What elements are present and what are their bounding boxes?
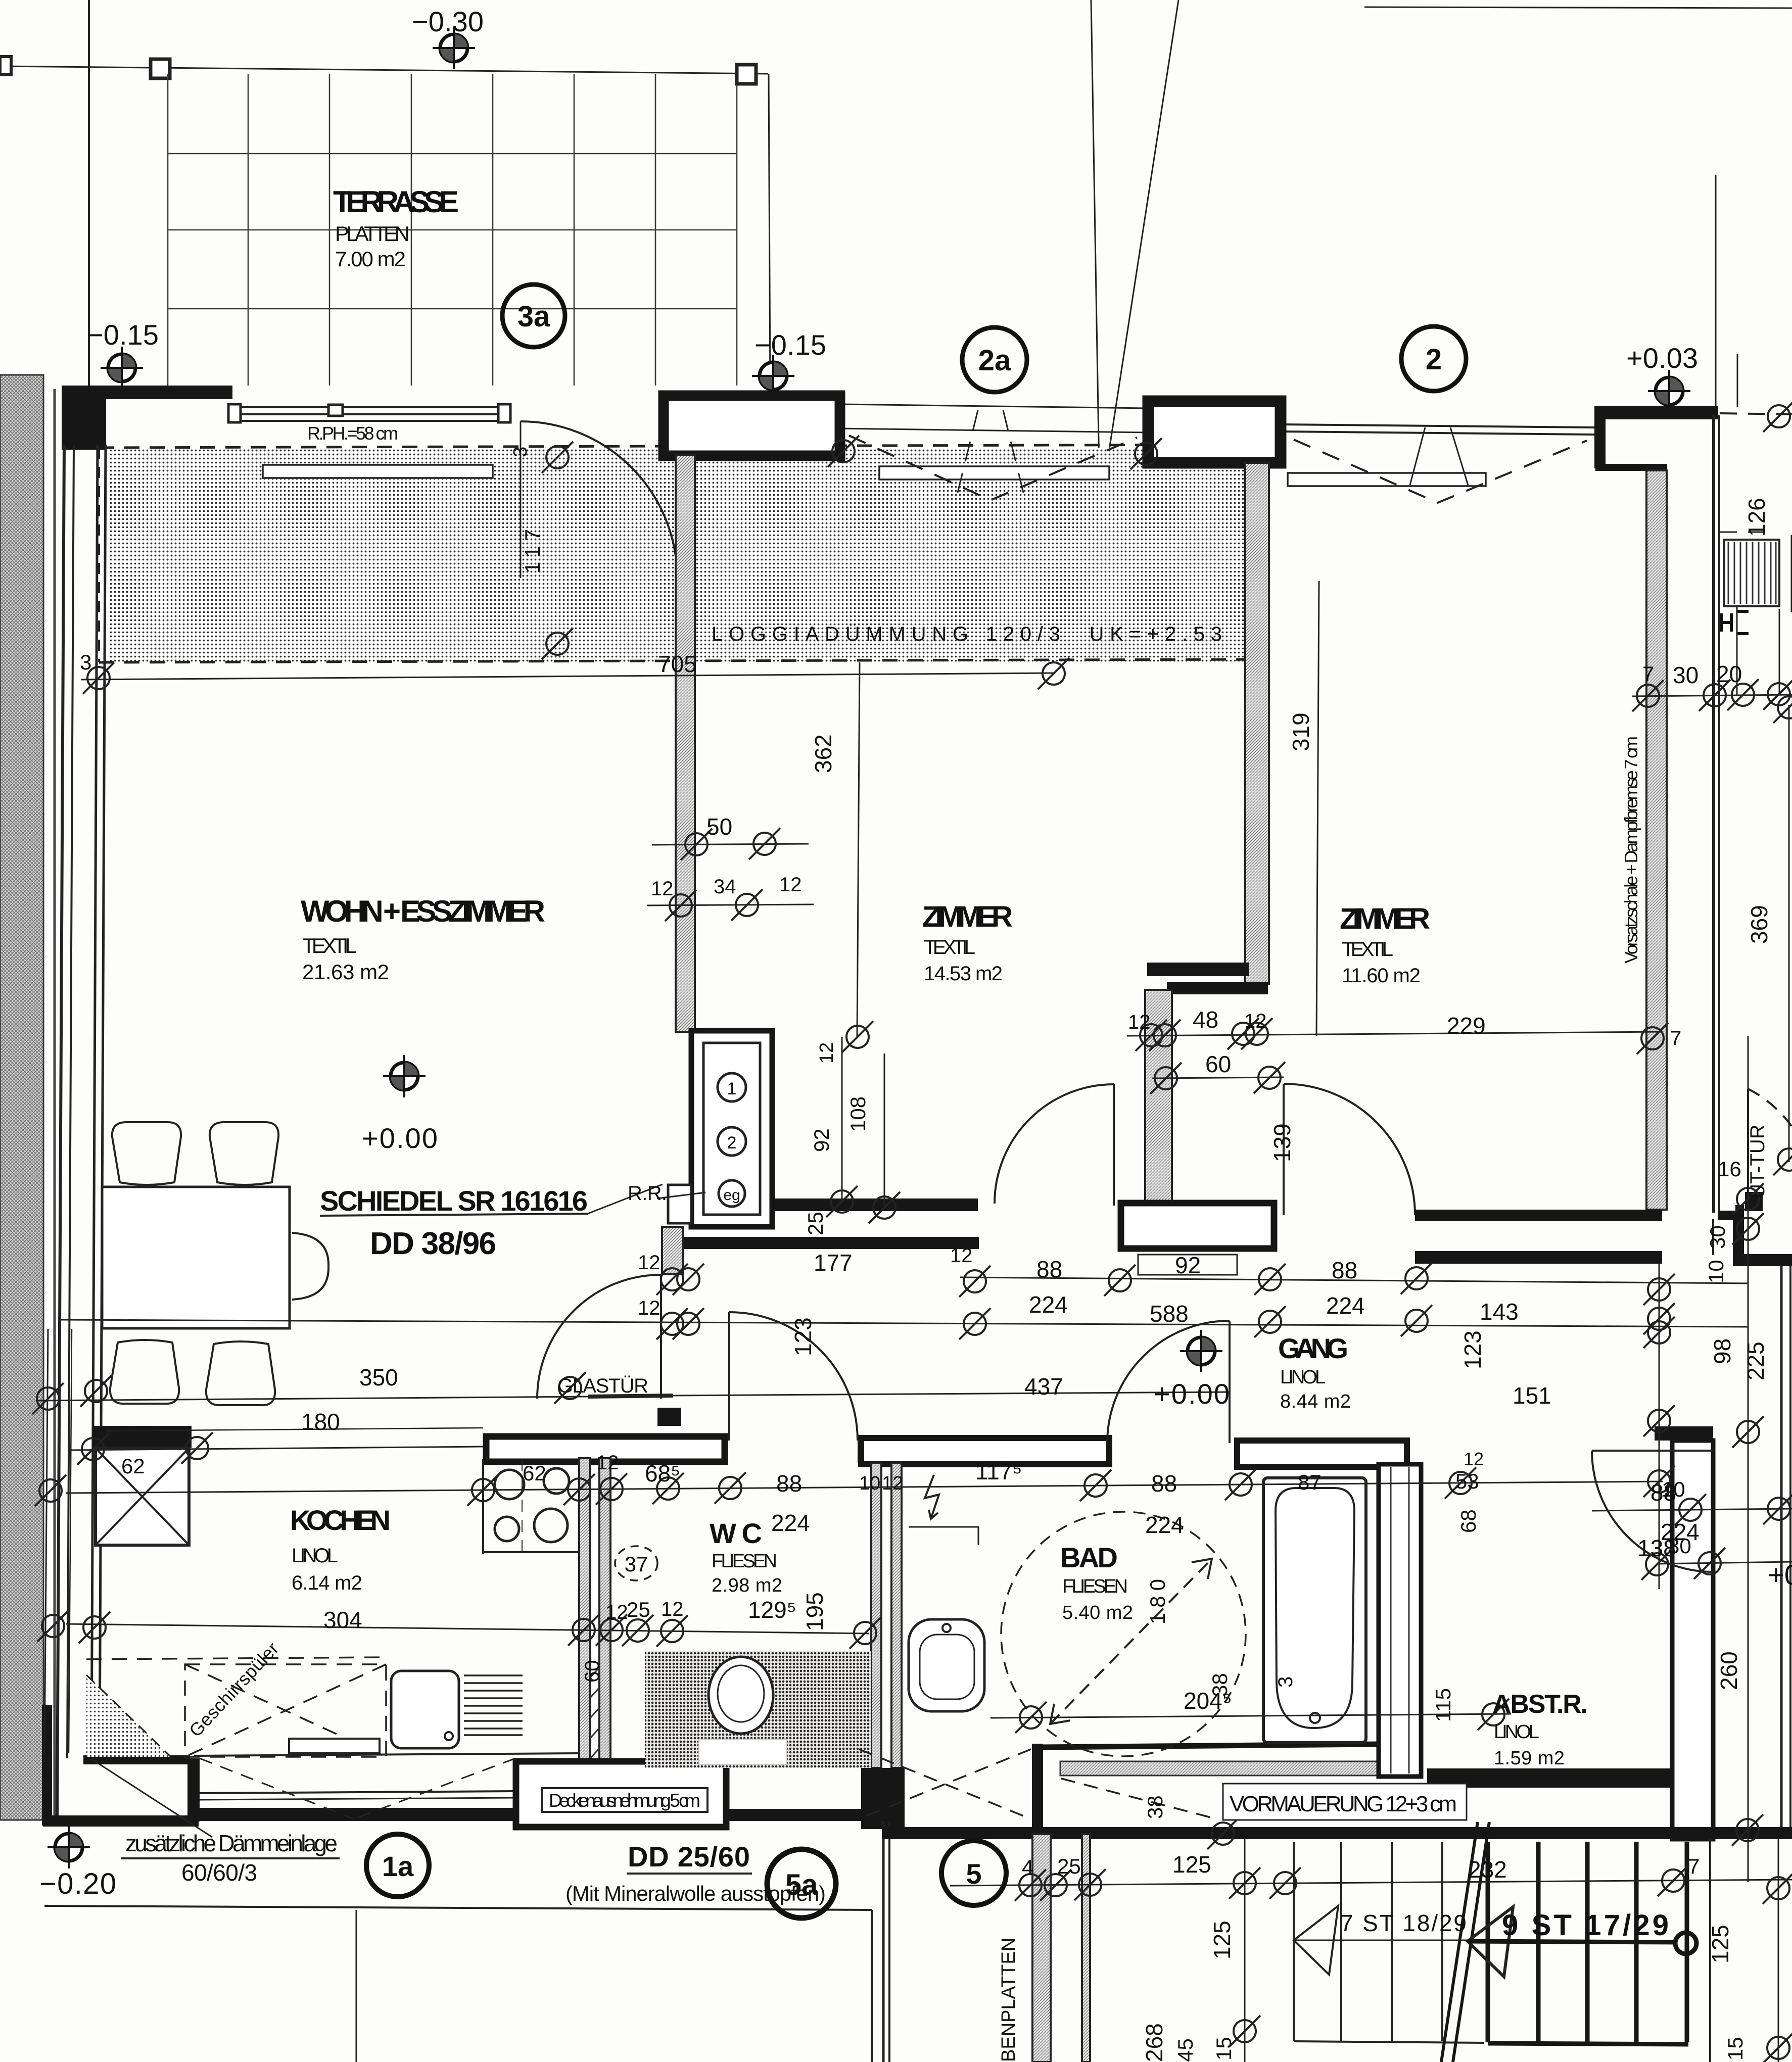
svg-text:224: 224 bbox=[1326, 1292, 1365, 1319]
svg-text:+0: +0 bbox=[1768, 1559, 1792, 1591]
vormauerung note bbox=[1223, 1784, 1467, 1820]
bad washbasin bbox=[909, 1619, 984, 1711]
dim line room1 niche 12-34-12 bbox=[647, 904, 814, 905]
dim line 350/437 bbox=[38, 1397, 588, 1401]
chair bottom 2 bbox=[206, 1341, 275, 1405]
svg-text:125: 125 bbox=[1209, 1921, 1235, 1959]
svg-text:PLATTEN: PLATTEN bbox=[335, 222, 410, 246]
svg-text:2: 2 bbox=[727, 1133, 737, 1153]
svg-text:30: 30 bbox=[1668, 1534, 1691, 1558]
svg-text:21.63 m2: 21.63 m2 bbox=[302, 960, 389, 984]
top wall west segment bbox=[63, 386, 232, 399]
svg-text:60: 60 bbox=[1205, 1051, 1231, 1077]
east corner notch vertical bbox=[1594, 409, 1606, 468]
terrace door arc bbox=[521, 421, 677, 578]
axis bubble 5a bbox=[767, 1849, 836, 1918]
loggia band dashed top edge bbox=[99, 445, 1252, 448]
fence post square B bbox=[737, 65, 756, 84]
svg-text:9 ST 17/29: 9 ST 17/29 bbox=[1502, 1909, 1669, 1942]
svg-text:53: 53 bbox=[1455, 1469, 1479, 1493]
abstr east wall bbox=[1672, 1441, 1713, 1839]
svg-text:−0.20: −0.20 bbox=[39, 1867, 116, 1900]
svg-text:11.60 m2: 11.60 m2 bbox=[1342, 965, 1421, 987]
svg-text:88: 88 bbox=[1332, 1257, 1357, 1283]
svg-text:BENPLATTEN: BENPLATTEN bbox=[998, 1938, 1019, 2062]
svg-text:DD 25/60: DD 25/60 bbox=[628, 1841, 750, 1873]
zimmer2 door leaf bbox=[1283, 1084, 1285, 1215]
R.R. duct box bbox=[668, 1185, 691, 1223]
wc/bad wall foot bbox=[861, 1768, 905, 1829]
svg-text:88: 88 bbox=[1151, 1470, 1177, 1497]
svg-text:60/60/3: 60/60/3 bbox=[181, 1859, 257, 1886]
dim line 705 bbox=[81, 673, 1054, 680]
svg-text:15: 15 bbox=[1212, 2037, 1236, 2060]
svg-text:25: 25 bbox=[804, 1212, 827, 1235]
bay3 opening dashed V bbox=[1294, 440, 1587, 503]
svg-text:7.00 m2: 7.00 m2 bbox=[335, 247, 406, 271]
svg-text:3: 3 bbox=[1275, 1676, 1297, 1688]
stairwell north wall bbox=[882, 1827, 1792, 1839]
svg-text:232: 232 bbox=[1468, 1856, 1507, 1883]
svg-text:SCHIEDEL SR 161616: SCHIEDEL SR 161616 bbox=[320, 1185, 588, 1217]
svg-text:KOCHEN: KOCHEN bbox=[290, 1504, 391, 1536]
window sill board bay2 bbox=[879, 466, 1109, 479]
divider jog bar upper bbox=[1147, 963, 1249, 976]
svg-text:Deckenausnehmung 5 cm: Deckenausnehmung 5 cm bbox=[549, 1790, 700, 1811]
svg-text:45: 45 bbox=[1173, 2038, 1197, 2062]
glass door arc bbox=[537, 1275, 661, 1399]
abstr door leaf bbox=[1592, 1450, 1713, 1452]
deckenausnehmung box bbox=[516, 1761, 726, 1827]
vertical dim line 362 bbox=[857, 662, 860, 1037]
svg-text:125: 125 bbox=[1172, 1851, 1211, 1878]
svg-text:FLIESEN: FLIESEN bbox=[1062, 1576, 1128, 1597]
svg-text:2: 2 bbox=[1426, 343, 1442, 376]
cutting board bbox=[289, 1739, 380, 1753]
window w1 glazing lines bbox=[231, 407, 510, 421]
svg-text:−0.30: −0.30 bbox=[412, 6, 484, 37]
svg-text:180: 180 bbox=[301, 1409, 340, 1435]
svg-text:12: 12 bbox=[1464, 1449, 1484, 1469]
svg-text:GANG: GANG bbox=[1278, 1332, 1349, 1364]
svg-text:Vorsatzschale + Dampfbremse 7: Vorsatzschale + Dampfbremse 7 cm bbox=[1621, 736, 1641, 964]
dim line 304/wc row bbox=[66, 1624, 869, 1634]
svg-text:62: 62 bbox=[523, 1461, 546, 1485]
svg-text:TEXTIL: TEXTIL bbox=[1342, 938, 1393, 961]
wc door arc bbox=[729, 1312, 858, 1441]
window sill board bay1 bbox=[263, 465, 493, 478]
bad/abstr dividing wall bbox=[1379, 1464, 1421, 1777]
svg-text:50: 50 bbox=[706, 813, 732, 840]
divider wall zimmer/zimmer upper bbox=[1245, 463, 1269, 984]
bad diagonal arrow dashed bbox=[1050, 1559, 1212, 1724]
divider wall zimmer2 lower bbox=[1145, 990, 1172, 1204]
svg-text:WOHN + ESSZIMMER: WOHN + ESSZIMMER bbox=[301, 894, 546, 928]
gang north wall bbox=[669, 1237, 979, 1249]
svg-text:304: 304 bbox=[323, 1607, 362, 1633]
svg-text:98: 98 bbox=[1709, 1338, 1735, 1364]
svg-text:3a: 3a bbox=[517, 300, 550, 333]
dim line corridor row2 bbox=[61, 1320, 1748, 1327]
neighbour building grey strip bbox=[0, 375, 43, 1820]
svg-text:ABST.R.: ABST.R. bbox=[1492, 1690, 1588, 1719]
bottom wall east of box bbox=[726, 1809, 872, 1821]
bad door leaf bbox=[1229, 1321, 1231, 1443]
wc/bad dividing wall bands bbox=[871, 1463, 881, 1768]
svg-text:115: 115 bbox=[1431, 1688, 1455, 1722]
svg-text:10: 10 bbox=[1662, 1477, 1685, 1501]
svg-text:437: 437 bbox=[1024, 1373, 1063, 1400]
abstr south wall bbox=[1427, 1768, 1672, 1788]
vertical dim line corridor arm bbox=[1659, 1263, 1660, 1589]
top wall window pier block C bbox=[664, 396, 840, 456]
svg-text:7: 7 bbox=[1688, 1854, 1700, 1878]
svg-text:12: 12 bbox=[950, 1244, 973, 1267]
svg-text:5.40 m2: 5.40 m2 bbox=[1062, 1602, 1133, 1623]
east corner notch horizontal bbox=[1595, 464, 1667, 471]
svg-text:143: 143 bbox=[1480, 1299, 1519, 1325]
svg-text:319: 319 bbox=[1288, 712, 1314, 751]
H symbol block bbox=[1721, 611, 1749, 634]
wc door leaf bbox=[728, 1312, 730, 1441]
room2 door arc bbox=[964, 1086, 1111, 1211]
dimension markers bbox=[83, 662, 114, 694]
svg-text:195: 195 bbox=[801, 1592, 828, 1631]
right boundary verticals above building bbox=[1715, 175, 1717, 407]
R.R. leader bbox=[657, 1192, 705, 1198]
site diagonal line B bbox=[1101, 0, 1178, 505]
svg-text:7 ST 18/29: 7 ST 18/29 bbox=[1340, 1910, 1467, 1936]
svg-text:16: 16 bbox=[1718, 1157, 1741, 1181]
corner pier left of stair hall bbox=[868, 1768, 883, 1829]
bottom wall step bbox=[187, 1758, 200, 1821]
site diagonal line A bbox=[1091, 0, 1100, 528]
svg-text:38: 38 bbox=[1208, 1673, 1232, 1697]
svg-text:7: 7 bbox=[1670, 1027, 1681, 1049]
svg-text:zusätzliche Dämmeinlage: zusätzliche Dämmeinlage bbox=[125, 1830, 338, 1856]
vertical dim line 319 bbox=[1316, 581, 1319, 1036]
corridor arm north wall bbox=[1415, 1251, 1662, 1264]
svg-text:62: 62 bbox=[121, 1454, 145, 1478]
right exterior wall lines bbox=[1714, 415, 1719, 1213]
right flight arrow bbox=[1468, 1907, 1513, 1977]
dim line room2 niche top bbox=[1127, 1032, 1663, 1036]
svg-text:R.R.: R.R. bbox=[628, 1182, 667, 1205]
left exterior wall outer lines bbox=[57, 445, 106, 1819]
svg-text:WC: WC bbox=[710, 1517, 763, 1549]
svg-text:37: 37 bbox=[625, 1552, 648, 1576]
svg-text:268: 268 bbox=[1141, 2023, 1167, 2062]
kitchen hob circles bbox=[495, 1468, 569, 1542]
svg-text:30: 30 bbox=[1673, 662, 1699, 688]
abstr door arc bbox=[1592, 1451, 1713, 1572]
svg-text:38: 38 bbox=[1143, 1795, 1167, 1819]
stair cut double slash bbox=[1441, 1822, 1478, 2062]
dim line room1 niche 50 bbox=[652, 844, 809, 845]
left flight treads bbox=[1294, 1842, 1484, 2043]
fence line top bbox=[0, 66, 768, 74]
svg-text:20: 20 bbox=[1716, 661, 1742, 687]
stair shaft wall b bbox=[1082, 1834, 1090, 2062]
east connector pier bbox=[1735, 1205, 1744, 1256]
bad niche lines bbox=[909, 1527, 978, 1545]
bottom row above stairs bbox=[950, 1880, 1792, 1886]
svg-text:88: 88 bbox=[1036, 1256, 1062, 1282]
svg-text:139: 139 bbox=[1269, 1123, 1295, 1162]
entrance door leaf bbox=[1747, 1089, 1749, 1201]
svg-text:12: 12 bbox=[651, 878, 674, 900]
svg-text:705: 705 bbox=[658, 651, 697, 677]
svg-text:GLASTÜR: GLASTÜR bbox=[557, 1375, 648, 1397]
daemmeinlage note bbox=[92, 1759, 212, 1837]
east jog piece a bbox=[1718, 1211, 1740, 1220]
corridor arm east boundary lines bbox=[1712, 1219, 1714, 1255]
glass partition wall bbox=[588, 1396, 673, 1397]
svg-text:FLIESEN: FLIESEN bbox=[712, 1551, 777, 1572]
svg-text:224: 224 bbox=[1145, 1512, 1184, 1538]
svg-text:123: 123 bbox=[790, 1317, 816, 1356]
bay2 opening dashed V bbox=[849, 436, 1137, 500]
chimney flue 2 bbox=[718, 1127, 746, 1156]
svg-text:1a: 1a bbox=[382, 1850, 414, 1882]
w1 end blocks and mullion bbox=[228, 404, 241, 422]
left exterior wall top block bbox=[62, 386, 106, 450]
svg-text:88: 88 bbox=[776, 1470, 802, 1497]
stair hall east wall lines bbox=[1780, 1266, 1783, 1839]
bay2 centre funnel lines bbox=[958, 410, 1023, 493]
svg-text:R.PH.=58 cm: R.PH.=58 cm bbox=[307, 423, 398, 444]
loggia band dashed bottom edge bbox=[99, 659, 1252, 662]
electric arrow bbox=[925, 1475, 939, 1519]
svg-text:2a: 2a bbox=[978, 344, 1011, 377]
abstr door dim row bbox=[1592, 1509, 1792, 1511]
wall chunk right of room2 door bbox=[1121, 1203, 1274, 1249]
svg-text:123: 123 bbox=[1459, 1330, 1486, 1369]
dim line bad 2045 bbox=[991, 1714, 1511, 1718]
radiator hatch block right (stair landing) bbox=[1724, 536, 1792, 611]
kochen north wall west piece bbox=[93, 1426, 192, 1448]
bottom wall west bbox=[43, 1815, 199, 1827]
svg-text:369: 369 bbox=[1746, 905, 1772, 944]
wc shower tray bbox=[699, 1739, 787, 1764]
drain dashed lines bbox=[859, 1749, 1213, 1819]
fence post square left edge bbox=[0, 57, 11, 75]
svg-text:+0.03: +0.03 bbox=[1626, 342, 1698, 374]
glass door post bbox=[657, 1408, 681, 1426]
dim line corridor row1 bbox=[960, 1277, 1749, 1283]
svg-text:7: 7 bbox=[1642, 662, 1654, 686]
svg-text:34: 34 bbox=[714, 876, 736, 898]
kitchen corner stipple triangle bbox=[86, 1675, 171, 1757]
svg-text:12: 12 bbox=[661, 1598, 684, 1620]
svg-text:BAD: BAD bbox=[1060, 1542, 1118, 1573]
svg-text:14.53 m2: 14.53 m2 bbox=[924, 963, 1003, 985]
bottom right boundary verticals bbox=[1709, 1839, 1711, 2062]
svg-text:5a: 5a bbox=[785, 1868, 818, 1901]
entrance hinge block bbox=[1745, 1192, 1763, 1211]
open bay front thin lines (2a bay) bbox=[840, 404, 1147, 433]
svg-text:12: 12 bbox=[882, 1473, 903, 1494]
dishwasher dashed box bbox=[185, 1664, 386, 1757]
svg-text:1.59 m2: 1.59 m2 bbox=[1494, 1748, 1565, 1769]
far right vertical 369 bbox=[1788, 705, 1790, 1162]
loggia band dashed left edge bbox=[98, 448, 100, 662]
svg-text:224: 224 bbox=[771, 1510, 810, 1536]
bay3 centre funnel lines bbox=[1410, 427, 1468, 485]
stair hall west wall lines bbox=[882, 1821, 885, 2062]
svg-text:25: 25 bbox=[627, 1598, 650, 1621]
stair shaft wall a bbox=[1032, 1834, 1051, 2062]
terrace tile grid verticals bbox=[168, 74, 737, 386]
svg-text:12: 12 bbox=[605, 1601, 628, 1623]
dim line room2 niche 60 bbox=[1152, 1077, 1284, 1078]
kitchen counter dashed overhead line bbox=[86, 1657, 386, 1659]
bottom left small verticals bbox=[1244, 1839, 1246, 2062]
svg-text:−0.15: −0.15 bbox=[754, 329, 826, 361]
TERRACE bbox=[168, 74, 737, 386]
kochen cupboard x-box bbox=[96, 1448, 189, 1545]
svg-text:588: 588 bbox=[1150, 1301, 1189, 1327]
bad door arc bbox=[1107, 1321, 1230, 1443]
terrace tile grid horizontals bbox=[168, 154, 737, 309]
sink bbox=[391, 1671, 459, 1748]
chimney flue eg bbox=[719, 1180, 745, 1207]
svg-text:8.44 m2: 8.44 m2 bbox=[1280, 1391, 1351, 1412]
property line left vertical bbox=[88, 0, 90, 387]
svg-text:129⁵: 129⁵ bbox=[748, 1597, 796, 1623]
svg-text:260: 260 bbox=[1716, 1651, 1742, 1690]
svg-text:92: 92 bbox=[810, 1128, 833, 1152]
terrace door leaf bbox=[520, 421, 522, 578]
svg-text:108: 108 bbox=[846, 1096, 870, 1132]
svg-text:TERRASSE: TERRASSE bbox=[333, 185, 459, 219]
svg-text:ZIMMER: ZIMMER bbox=[922, 900, 1013, 933]
svg-text:229: 229 bbox=[1447, 1013, 1486, 1039]
chimney lower stub bbox=[662, 1227, 683, 1274]
kitchen window lines bbox=[194, 1753, 579, 1800]
svg-text:25: 25 bbox=[1057, 1854, 1081, 1878]
chair top 2 bbox=[210, 1122, 278, 1185]
svg-text:151: 151 bbox=[1513, 1382, 1551, 1409]
svg-text:3: 3 bbox=[510, 447, 531, 457]
svg-text:3: 3 bbox=[80, 650, 91, 674]
svg-text:12: 12 bbox=[1244, 1010, 1267, 1032]
svg-text:6.14 m2: 6.14 m2 bbox=[292, 1572, 362, 1594]
svg-text:126: 126 bbox=[1743, 498, 1770, 537]
top wall east corner segment bbox=[1594, 406, 1718, 419]
kochen/wc north wall ring bbox=[486, 1436, 725, 1462]
svg-text:1: 1 bbox=[727, 1079, 737, 1098]
kitchen dashed cross lower bbox=[200, 1758, 515, 1819]
zimmer2 door arc bbox=[1284, 1084, 1415, 1215]
svg-text:12: 12 bbox=[779, 874, 802, 896]
svg-text:12: 12 bbox=[816, 1042, 837, 1064]
svg-text:TEXTIL: TEXTIL bbox=[302, 934, 357, 957]
left flight arrow bbox=[1294, 1906, 1338, 1975]
svg-text:117: 117 bbox=[521, 529, 544, 573]
wc west wall band 2 bbox=[599, 1458, 610, 1768]
boundary down to building right of terrace bbox=[769, 74, 770, 386]
window sill board bay3 bbox=[1288, 473, 1486, 486]
right lower row bbox=[1658, 1562, 1792, 1564]
SITE bbox=[0, 0, 1792, 532]
far right row 7-30-20 bbox=[1632, 695, 1792, 696]
svg-text:LINOL: LINOL bbox=[1280, 1367, 1326, 1388]
svg-text:362: 362 bbox=[810, 734, 836, 773]
bottom wall below kitchen window bbox=[200, 1808, 516, 1821]
fence post square A bbox=[151, 59, 170, 78]
DIMS bbox=[38, 581, 1792, 2062]
svg-text:117⁵: 117⁵ bbox=[975, 1458, 1022, 1484]
divider niche bar lower bbox=[1167, 982, 1268, 994]
svg-text:224: 224 bbox=[1029, 1291, 1068, 1318]
deckenausnehmung label frame bbox=[542, 1788, 708, 1812]
svg-text:10: 10 bbox=[1704, 1260, 1728, 1283]
svg-text:TEXTIL: TEXTIL bbox=[924, 936, 975, 958]
neighbour line right from corner bbox=[1720, 413, 1792, 414]
svg-text:68: 68 bbox=[1456, 1509, 1480, 1533]
entrance door dashed arc bbox=[1748, 1089, 1792, 1127]
svg-text:4: 4 bbox=[1022, 1855, 1033, 1879]
plot rectangle bottom-left bbox=[44, 1906, 872, 2062]
wc vent dashed circle 37 bbox=[615, 1546, 657, 1580]
chair bottom 1 bbox=[110, 1340, 179, 1404]
kitchen counter edge top bbox=[482, 1459, 484, 1554]
dining table bbox=[102, 1187, 290, 1328]
bathtub bbox=[1263, 1478, 1366, 1743]
bad turning circle dashed bbox=[1001, 1512, 1246, 1756]
dim line kochen/wc/bad row bbox=[66, 1481, 1663, 1493]
bad north wall east bbox=[1237, 1441, 1407, 1467]
svg-text:180: 180 bbox=[1146, 1579, 1169, 1624]
svg-text:15: 15 bbox=[1723, 2037, 1747, 2060]
chimney block bbox=[691, 1031, 772, 1227]
wc floor stipple bbox=[645, 1651, 871, 1768]
window w2 glazing lines (bay3) bbox=[1282, 424, 1594, 435]
svg-text:−0.15: −0.15 bbox=[87, 319, 159, 351]
axis bubble 1a bbox=[366, 1834, 429, 1897]
shaft diagonal stripes bbox=[590, 1667, 599, 1758]
svg-text:177: 177 bbox=[814, 1250, 853, 1276]
svg-text:60: 60 bbox=[581, 1660, 603, 1683]
bad south wall bbox=[1041, 1744, 1378, 1747]
chimney flue 1 bbox=[718, 1073, 746, 1101]
dim line kochen top bbox=[69, 1447, 483, 1450]
svg-text:68⁵: 68⁵ bbox=[645, 1460, 680, 1486]
glass door leaf bbox=[660, 1275, 662, 1399]
svg-text:12: 12 bbox=[638, 1252, 661, 1274]
svg-text:LINOL: LINOL bbox=[292, 1545, 338, 1567]
wc toilet bbox=[709, 1657, 773, 1734]
loggia insulation stipple band bbox=[108, 448, 1252, 662]
svg-text:LINOL: LINOL bbox=[1494, 1721, 1539, 1743]
wc west wall band 1 bbox=[579, 1458, 590, 1768]
svg-text:+0.00: +0.00 bbox=[1154, 1378, 1230, 1410]
top right boundary line bbox=[1364, 7, 1792, 8]
east jog piece b bbox=[1733, 1219, 1740, 1256]
zimmer2 south wall bbox=[1415, 1210, 1662, 1221]
svg-text:125: 125 bbox=[1707, 1925, 1733, 1963]
kochen inner south wall bbox=[83, 1755, 190, 1764]
east jog piece c bbox=[1733, 1254, 1792, 1266]
wall piece left of bad bbox=[858, 1439, 902, 1463]
svg-text:VORMAUERUNG 12+3 cm: VORMAUERUNG 12+3 cm bbox=[1230, 1792, 1457, 1816]
bottom-left corner outer vertical bbox=[42, 1705, 52, 1826]
svg-text:350: 350 bbox=[359, 1364, 398, 1390]
svg-text:5: 5 bbox=[966, 1858, 981, 1890]
bad north wall west bbox=[861, 1438, 1109, 1464]
svg-text:12: 12 bbox=[638, 1297, 661, 1319]
